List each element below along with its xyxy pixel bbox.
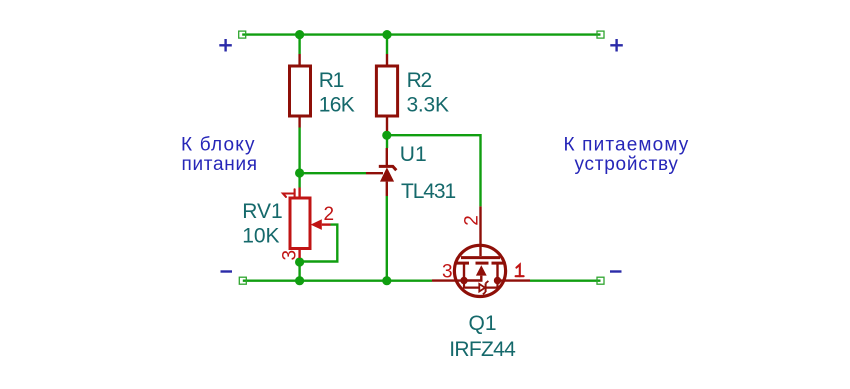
svg-text:3.3K: 3.3K [407,94,449,117]
svg-text:К блоку: К блоку [181,135,256,156]
svg-text:R1: R1 [319,69,344,92]
svg-text:TL431: TL431 [401,180,455,203]
svg-text:3: 3 [442,261,453,282]
svg-text:питания: питания [182,154,258,175]
svg-text:10K: 10K [242,224,279,247]
svg-text:RV1: RV1 [242,200,282,223]
svg-text:R2: R2 [407,69,432,92]
svg-text:IRFZ44: IRFZ44 [449,338,516,361]
svg-text:16K: 16K [319,94,355,117]
svg-text:3: 3 [280,250,301,261]
svg-text:2: 2 [462,215,483,226]
svg-text:U1: U1 [400,143,427,166]
svg-text:Q1: Q1 [469,312,497,335]
svg-text:устройству: устройству [575,154,679,175]
svg-text:К питаемому: К питаемому [564,134,690,155]
svg-text:2: 2 [324,204,335,225]
